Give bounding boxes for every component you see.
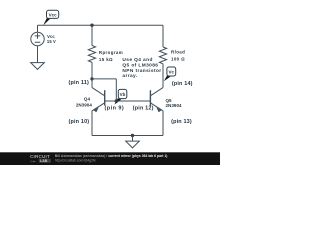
wire: base rail between Q4 and Q5 (105, 100, 151, 102)
svg-text:NPN transistor: NPN transistor (122, 68, 161, 74)
pin label (pin 14) Q5 collector (172, 81, 193, 87)
pin label (pin 10) Q4 emitter (69, 119, 90, 125)
label: Rload value (171, 50, 185, 62)
resistor Rprogram 15 k (88, 46, 95, 63)
svg-text:Bill Ashmanskas (ashmanskas) /: Bill Ashmanskas (ashmanskas) / current m… (55, 154, 168, 158)
svg-text:100 Ω: 100 Ω (171, 57, 185, 62)
junction: tie to base rail (115, 99, 118, 102)
voltage source V1 (Vcc 15 V) (31, 32, 44, 45)
ground (bottom rail) (126, 136, 140, 148)
svg-text:(pin 12): (pin 12) (133, 105, 154, 111)
svg-text:Vb: Vb (120, 92, 126, 97)
wire: Rprogram bottom lead (91, 62, 93, 79)
pin label (pin 13) Q5 emitter (171, 119, 192, 125)
wire: top rail Vcc net (38, 24, 164, 26)
svg-text:(pin 14): (pin 14) (172, 81, 193, 87)
svg-text:Q4: Q4 (84, 97, 91, 102)
label: Q5 name/value (166, 98, 183, 108)
ground (under V1) (31, 63, 45, 70)
wire: source top lead (37, 25, 39, 32)
pin label (pin 11) Q4 collector (69, 80, 89, 86)
svg-text:(pin 10): (pin 10) (69, 119, 90, 125)
wire: tie vertical down to base rail (115, 79, 117, 101)
wire: Rload top lead from top rail (162, 25, 164, 47)
resistor Rload 100 ohm (159, 47, 166, 64)
svg-text:(pin 11): (pin 11) (69, 80, 89, 86)
svg-text:15 V: 15 V (47, 39, 56, 44)
label: Rprogram value (99, 50, 123, 62)
net flag Vb (114, 89, 126, 104)
svg-text:2N3904: 2N3904 (166, 103, 183, 108)
svg-text:∿⊢: ∿⊢ (30, 159, 36, 163)
wire: Q5 collector lead (162, 64, 164, 88)
svg-text:Vcc: Vcc (47, 34, 55, 39)
wire: tie horizontal to base column (92, 78, 116, 80)
footer bar (0, 152, 220, 165)
svg-text:Use Q4 and: Use Q4 and (122, 57, 152, 63)
net flag Vcc (43, 10, 58, 25)
svg-text:Rload: Rload (171, 50, 185, 55)
svg-text:(pin 13): (pin 13) (171, 119, 192, 125)
wire: bottom emitter rail (92, 135, 163, 137)
wire: Q4 collector lead (91, 79, 93, 88)
note: Use Q4 and Q5 of LM3086 NPN transistor array. (122, 57, 161, 79)
wire: Q5 emitter lead (162, 111, 164, 136)
svg-text:Q5 of LM3086: Q5 of LM3086 (122, 62, 158, 68)
svg-text:LAB: LAB (40, 159, 48, 163)
svg-text:Vcc: Vcc (49, 12, 58, 17)
svg-text:2N3904: 2N3904 (76, 102, 93, 107)
label: Vcc source name/value (47, 34, 56, 44)
transistor Q4 (2N3904, mirrored NPN) (92, 88, 105, 113)
wire: Rprogram top lead (91, 25, 93, 45)
pin label (pin 9) Q4 base (105, 105, 125, 111)
transistor Q5 (2N3904, NPN) (150, 88, 163, 113)
net flag Vc (164, 67, 176, 81)
wire: Q4 emitter lead (91, 111, 93, 136)
svg-text:15 kΩ: 15 kΩ (99, 57, 113, 62)
svg-text:(pin 9): (pin 9) (105, 105, 125, 111)
junction: top rail to Rprogram (90, 24, 93, 27)
svg-text:Vc: Vc (169, 69, 175, 74)
svg-text:Rprogram: Rprogram (99, 50, 123, 55)
label: Q4 name/value (76, 97, 93, 108)
pin label (pin 12) Q5 base (133, 105, 154, 111)
svg-text:array.: array. (122, 73, 137, 79)
svg-text:http:∕∕circuitlab.com∕c64g2tk: http:∕∕circuitlab.com∕c64g2tk (55, 159, 96, 163)
junction: collector-base tie at Rprogram bottom (90, 77, 93, 80)
wire: source bottom lead (37, 46, 39, 63)
junction: bottom rail to ground (131, 134, 134, 137)
